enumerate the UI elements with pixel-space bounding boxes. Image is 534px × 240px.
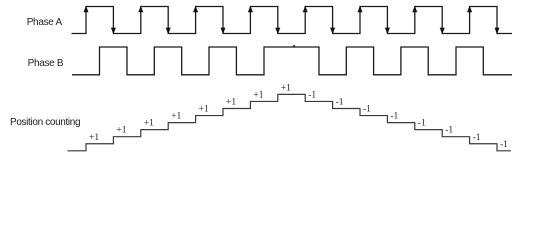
svg-text:+1: +1: [253, 91, 263, 101]
svg-text:Position counting: Position counting: [10, 117, 80, 128]
svg-text:Phase A: Phase A: [27, 17, 63, 28]
Phase A rising-edge up arrow 1: [84, 6, 89, 13]
Phase B waveform wire: [72, 47, 512, 75]
Phase A falling-edge down arrow 8: [495, 28, 500, 35]
svg-text:+1: +1: [171, 112, 181, 122]
svg-text:-1: -1: [473, 133, 481, 143]
Phase A rising-edge up arrow 2: [138, 6, 143, 13]
Position counting staircase wire: [68, 94, 512, 150]
Phase A falling-edge down arrow 5: [330, 28, 335, 35]
Phase A falling-edge down arrow 7: [440, 28, 445, 35]
Phase A falling-edge down arrow 1: [111, 28, 116, 35]
svg-text:+1: +1: [281, 83, 291, 93]
svg-text:-1: -1: [336, 98, 344, 108]
svg-text:+1: +1: [226, 98, 236, 108]
svg-text:+1: +1: [89, 133, 99, 143]
Phase A falling-edge down arrow 4: [275, 28, 280, 35]
svg-text:+1: +1: [144, 119, 154, 129]
svg-text:-1: -1: [500, 140, 508, 150]
Phase A falling-edge down arrow 2: [166, 28, 171, 35]
Phase A rising-edge up arrow 7: [412, 6, 417, 13]
Phase A falling-edge down arrow 3: [221, 28, 226, 35]
Phase A rising-edge up arrow 5: [303, 6, 308, 13]
Phase A rising-edge up arrow 3: [193, 6, 198, 13]
Phase A falling-edge down arrow 6: [385, 28, 390, 35]
svg-text:-1: -1: [418, 119, 426, 129]
Phase A rising-edge up arrow 6: [358, 6, 363, 13]
svg-text:-1: -1: [390, 112, 398, 122]
svg-text:-1: -1: [308, 91, 316, 101]
svg-text:+1: +1: [116, 126, 126, 136]
Phase B junction nub: [293, 45, 295, 47]
svg-text:-1: -1: [445, 126, 453, 136]
svg-text:+1: +1: [199, 105, 209, 115]
svg-text:Phase B: Phase B: [28, 58, 64, 69]
svg-text:-1: -1: [363, 105, 371, 115]
Phase A rising-edge up arrow 8: [467, 6, 472, 13]
Phase A waveform wire: [72, 7, 513, 34]
Phase A rising-edge up arrow 4: [248, 6, 253, 13]
